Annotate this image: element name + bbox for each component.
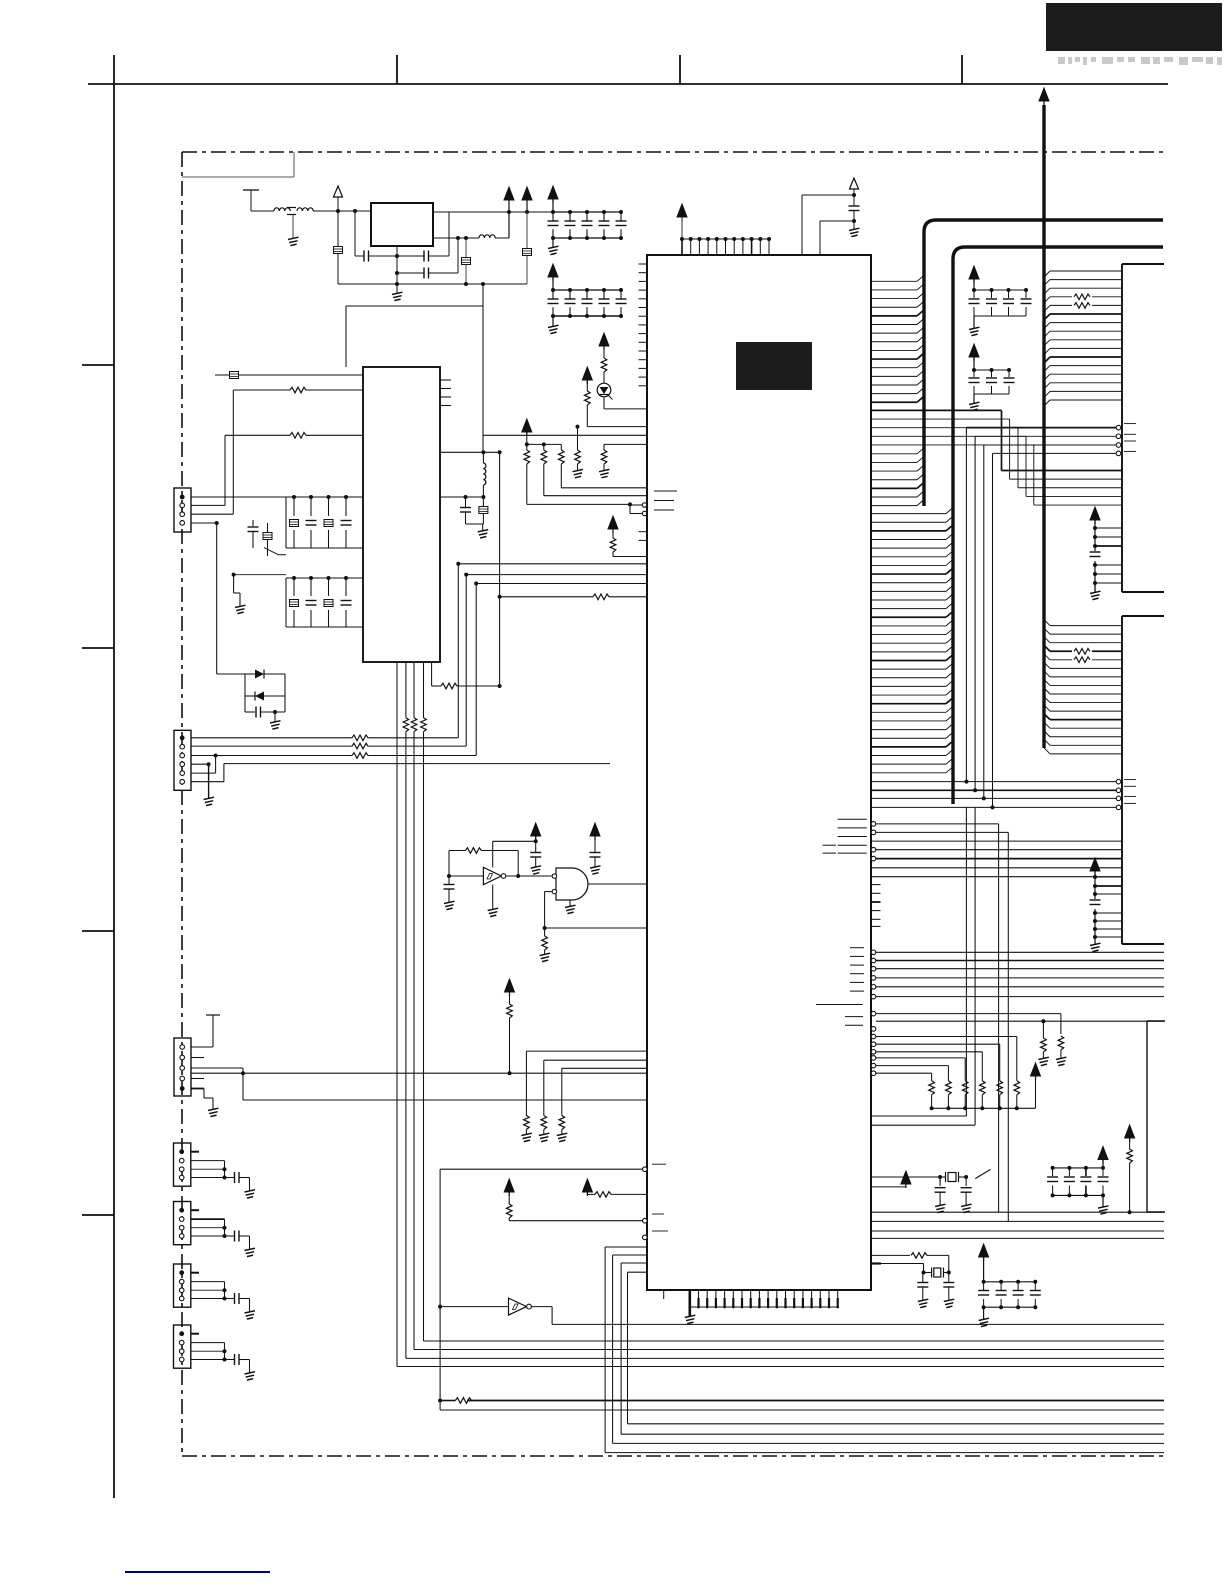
bus B3 fan into X2 <box>1044 620 1122 754</box>
CN2 pin6 long net <box>191 764 610 782</box>
U1 left pin stub pair mid <box>639 532 648 541</box>
long net CN3-4 to U1 <box>191 1071 647 1075</box>
inverter G2 input net <box>438 1164 666 1410</box>
regulator ground rail <box>338 282 527 286</box>
U1 bottom ground pin bold <box>685 1290 696 1324</box>
U2 bottom corner resistor R99 net <box>432 662 500 689</box>
U1 top bypass wire A <box>802 193 856 255</box>
wire U1 to crystal lower <box>872 1124 975 1126</box>
crystal symbol <box>938 1172 968 1182</box>
board outline notch <box>182 152 294 177</box>
U1 top ladder pins <box>680 237 771 255</box>
U1 bottom pin comb to gnd rail <box>688 1290 839 1308</box>
regulator output2 wire <box>433 237 479 239</box>
long wire y1021 <box>876 1019 1164 1023</box>
board outline dash-dot left <box>181 152 183 1456</box>
CN1 wires <box>191 390 363 674</box>
open power arrow VIN <box>334 186 343 213</box>
CN2 nets vertical taps <box>458 564 476 756</box>
U1 right pin stubs y885-927 <box>871 885 881 927</box>
resonator cap right <box>943 1273 954 1308</box>
CN2 pin5 jumper <box>191 754 218 774</box>
net wires right of U1 bottom <box>872 1212 1164 1238</box>
NAND vcc arrow cap <box>590 823 601 874</box>
cap bank top-right C41-C44 <box>968 266 1033 336</box>
frame tick left y648 <box>82 647 114 649</box>
U1 pins corner-down pair <box>871 822 1008 1221</box>
connector/IC X1 outline <box>1122 264 1164 592</box>
IC U2 (sub) body <box>363 367 440 662</box>
resistor row R93-R96 with power arrow <box>522 419 647 504</box>
CN5 connector <box>174 1202 256 1257</box>
U2 pin y452 net <box>440 450 502 454</box>
G1 gnd stem <box>488 885 499 917</box>
cap C13 row2 <box>397 268 458 279</box>
inverter G2 (Schmitt) <box>440 1298 531 1315</box>
long net to U1 y505 <box>0 0 1 1</box>
U1 pin circle net to R71 arrow <box>504 1179 664 1223</box>
NAND input2 net to R82 <box>540 892 553 962</box>
CN1 jog wires <box>191 523 286 577</box>
frame tick left y931 <box>82 930 114 932</box>
cap bank bottom-right <box>1046 1147 1109 1215</box>
wire U1 to crystal upper <box>872 1115 966 1117</box>
frame tick top x680 <box>679 55 681 84</box>
cap bank top-right C45-C47 <box>968 344 1016 411</box>
U1 internal pin label dash long <box>816 1004 863 1006</box>
CN7 connector <box>174 1325 256 1380</box>
frame tick top x397 <box>396 55 398 84</box>
CN6 connector <box>174 1264 256 1319</box>
EMI cap mid <box>462 236 471 284</box>
net wires y564-597 to U1 <box>456 562 647 586</box>
frame tick left y365 <box>82 364 114 366</box>
resonator Y2 <box>922 1268 951 1278</box>
capacitor bank C21-C25 <box>547 186 628 255</box>
U2 vertical nets <box>397 680 424 732</box>
crystal X'tal Y1 <box>872 1177 984 1183</box>
EMI cap left <box>334 247 343 254</box>
arrow R76 tap <box>505 979 515 1073</box>
CN3 wires <box>191 1015 243 1117</box>
U1 internal pin label dashes mid <box>850 948 864 991</box>
X2 pin rail decoupling lower <box>1088 858 1122 952</box>
EMI cap right <box>523 212 532 284</box>
frame tick top x962 <box>961 55 963 84</box>
pull resistor ladder R51-R56 <box>929 1081 1036 1111</box>
U2 top loop wire <box>346 282 485 452</box>
vertical taps below to bottom nets <box>966 807 975 1125</box>
title block tick row (faint) <box>1058 57 1222 65</box>
U1 right pin jog bundle into X1 <box>871 410 1122 505</box>
U1 pins into X2 direct <box>871 841 1122 877</box>
CN1 connector <box>174 488 191 532</box>
U1 pin circle label only <box>643 1231 669 1240</box>
connector/IC X2 outline <box>1122 616 1164 944</box>
U1 bottom-left nested nets to bottom bus <box>605 1247 1164 1453</box>
U1 right pin bundle into bus B2 <box>871 508 953 773</box>
resonator cap left <box>917 1273 928 1308</box>
wire reg bypass left <box>353 209 357 256</box>
ferrite core <box>287 208 296 215</box>
power arrow VOUT2 <box>504 187 514 238</box>
wire L2 to regulator <box>313 210 371 212</box>
NAND gnd stem <box>565 900 576 914</box>
U1 internal pin label dashes low <box>845 1017 863 1026</box>
vertical taps to lower nets <box>964 428 994 810</box>
CN4 connector <box>174 1143 256 1198</box>
power arrow VOUT1 <box>522 187 532 212</box>
net wires below X2 <box>871 950 1164 999</box>
diode cap + gnd <box>245 707 285 730</box>
IC U1 part number label (redacted) <box>736 342 812 390</box>
frame tick left y1215 <box>82 1214 114 1216</box>
U1 right pin bundle into bus B1 lower run <box>871 448 924 506</box>
diode pair D2 D3 <box>217 670 285 713</box>
open arrow + cap at U1 top <box>849 178 860 237</box>
U2 right rail w caps <box>440 495 488 538</box>
U2 right pin ticks <box>440 380 451 406</box>
G1 input cap to ground <box>444 876 455 910</box>
U1 pins to X2 off-page circles <box>871 779 1136 809</box>
regulator output wire <box>433 210 553 214</box>
net wire y435 to U1 <box>483 434 647 436</box>
cap C12 <box>397 251 449 262</box>
resistor pair R31 R32 <box>1072 292 1092 310</box>
inductor L1 <box>274 208 290 211</box>
U1 right pin bundle into bus B1 <box>871 275 924 402</box>
caps grid row1 rails <box>286 497 363 548</box>
R72 with arrow to U1 <box>582 1179 647 1197</box>
pin wire y1013 to R42 <box>871 1011 1061 1034</box>
feedback resistor R81 <box>449 848 520 878</box>
net y597 with R98 <box>498 594 647 600</box>
bus B1 horizontal <box>924 220 1163 506</box>
connector/IC X3 outline <box>1147 1021 1165 1212</box>
revision underline (blue) <box>125 1571 270 1573</box>
CN2 connector <box>174 730 191 790</box>
pwr arrow R92 to U1 <box>582 367 647 427</box>
resistor pair R33 R34 <box>1072 645 1092 665</box>
wire U1 to resonator <box>871 1253 949 1273</box>
pwr arrow + cap G1 <box>530 823 541 874</box>
schmitt inverter G1 <box>447 851 552 885</box>
U1 left pin stub comb upper <box>639 264 648 386</box>
regulator ground <box>392 284 403 301</box>
board outline dash-dot bottom <box>182 1455 1164 1457</box>
inductor L3 <box>479 235 509 238</box>
regulator center stem <box>395 246 399 289</box>
caps grid row2 rails <box>286 578 363 627</box>
net y390 with R1 <box>233 387 363 393</box>
wire regulator input <box>251 210 274 212</box>
U1 internal pin label dashes upper <box>823 819 867 853</box>
thick net with resistor R61 <box>440 1398 1164 1404</box>
long net CN3-5 to U1 <box>243 1073 647 1100</box>
U2 bottom net wires to bottom bus <box>397 732 1164 1367</box>
U1 pin circles upper right <box>871 1027 931 1032</box>
capacitor bank C26-C30 <box>547 264 628 334</box>
wire row2 right <box>456 236 460 273</box>
IC U1 (main processor) body <box>647 255 871 1290</box>
U1 pin circles with net stub <box>628 502 647 515</box>
U1 top pin ladder rail <box>677 204 769 239</box>
U1 bottom pin tick <box>663 1290 665 1299</box>
left cap pair <box>248 520 273 556</box>
ground left mid <box>234 575 246 614</box>
ground below filter <box>288 215 299 246</box>
inductor L2 <box>297 208 313 211</box>
cap bank near resonator <box>977 1244 1042 1327</box>
CN2 wires w/ resistors <box>191 735 476 758</box>
X1 pin rail decoupling upper <box>1088 507 1122 600</box>
page frame horizontal rule <box>88 83 1168 85</box>
power arrow osc <box>872 1171 911 1188</box>
regulator IC U3 body <box>371 203 433 246</box>
page frame vertical rule <box>113 55 115 1498</box>
bus B3 vertical <box>1039 88 1049 748</box>
caps grid row1 symbols <box>288 495 352 548</box>
vertical net x499 <box>498 452 502 688</box>
net label dashes at U1 <box>654 491 677 510</box>
net y435 with R2 <box>225 433 363 439</box>
net R82 to U1 <box>545 927 647 929</box>
resistor R41 pulldown <box>1038 1021 1049 1065</box>
cap C11 <box>355 251 397 262</box>
inductor L5 vertical <box>483 452 485 497</box>
resistor R43 w/ arrow <box>1125 1125 1135 1214</box>
NAND gate G3 <box>552 868 647 900</box>
net wires with off-page circles at X1 <box>966 424 1136 456</box>
wire VIN drop left <box>337 211 339 284</box>
resistor R42 pulldown <box>1056 1036 1067 1066</box>
title block (redacted) <box>1046 3 1222 51</box>
wire U1 to resonator 2 <box>871 1264 924 1273</box>
wires U1 left to R73-75 pulldowns <box>521 1051 647 1142</box>
callout slash <box>975 1169 990 1178</box>
net y375 with EMI cap <box>215 372 363 391</box>
U2 bottom pins <box>397 662 424 680</box>
arrow R97 to U1 <box>608 516 647 557</box>
wire reg right loop <box>448 212 450 256</box>
osc caps <box>933 1177 973 1213</box>
inverter G2 output net <box>531 1307 1164 1325</box>
net wire y1410 <box>440 1409 1164 1411</box>
bus B3 fan into X1 <box>1044 271 1122 406</box>
crystal network <box>940 1176 966 1178</box>
bus B2 horizontal <box>953 247 1163 804</box>
U1 pin wires nested to pull resistors <box>871 1034 1017 1081</box>
caps grid row2 symbols <box>288 576 352 627</box>
pwr arrow R91 LED D1 to U1 <box>597 333 647 409</box>
power arrow for ladder <box>1031 1063 1041 1081</box>
CN2 pin4 to ground <box>191 762 214 805</box>
CN3 connector <box>174 1038 191 1096</box>
U2 net resistors R100-102 <box>397 680 426 1367</box>
U1 top bypass wire B <box>820 219 856 255</box>
antenna stub T <box>243 190 259 211</box>
G1 vcc net <box>493 839 538 867</box>
board outline dash-dot top <box>182 151 1163 153</box>
